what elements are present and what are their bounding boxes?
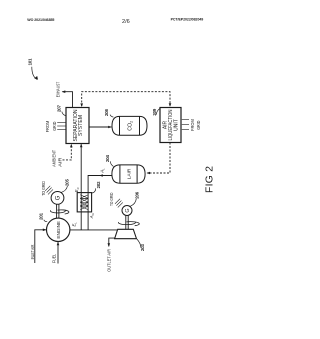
- svg-text:G: G: [56, 195, 62, 200]
- svg-text:EL: EL: [72, 222, 78, 227]
- svg-text:OUTLET AIR: OUTLET AIR: [106, 249, 111, 272]
- svg-text:FIG 2: FIG 2: [205, 166, 216, 193]
- svg-text:205: 205: [64, 179, 69, 186]
- svg-text:2/6: 2/6: [122, 19, 130, 25]
- svg-text:GRID: GRID: [52, 122, 57, 131]
- svg-text:206: 206: [135, 191, 140, 198]
- svg-text:TO GRID: TO GRID: [109, 193, 114, 206]
- svg-text:AH: AH: [89, 212, 95, 219]
- svg-text:CO2: CO2: [128, 121, 134, 131]
- svg-text:LAIR: LAIR: [127, 168, 133, 179]
- svg-text:WO 2021/046855: WO 2021/046855: [27, 18, 54, 22]
- svg-text:G: G: [125, 208, 131, 212]
- svg-text:202: 202: [96, 181, 101, 188]
- svg-text:AMBIENT: AMBIENT: [52, 150, 57, 167]
- svg-text:TO GRID: TO GRID: [41, 181, 46, 196]
- svg-text:AIR: AIR: [57, 158, 62, 167]
- svg-text:PCT/EP2022/082049: PCT/EP2022/082049: [171, 18, 204, 22]
- svg-text:FROM: FROM: [190, 119, 195, 131]
- svg-text:UNIT: UNIT: [174, 119, 180, 131]
- svg-text:AL: AL: [100, 168, 106, 174]
- svg-text:GRID: GRID: [196, 121, 201, 130]
- svg-text:207: 207: [57, 105, 62, 112]
- svg-text:ENGINE: ENGINE: [56, 221, 61, 239]
- svg-text:208: 208: [104, 109, 109, 116]
- svg-text:INLET AIR: INLET AIR: [30, 245, 35, 260]
- svg-text:EXHAUST: EXHAUST: [56, 81, 61, 97]
- svg-text:204: 204: [105, 155, 110, 162]
- svg-text:EC: EC: [74, 186, 80, 192]
- svg-text:101: 101: [28, 58, 33, 65]
- svg-text:SYSTEM: SYSTEM: [78, 115, 84, 136]
- svg-text:FROM: FROM: [45, 120, 50, 132]
- svg-text:201: 201: [39, 212, 44, 219]
- svg-text:FUEL: FUEL: [51, 254, 56, 263]
